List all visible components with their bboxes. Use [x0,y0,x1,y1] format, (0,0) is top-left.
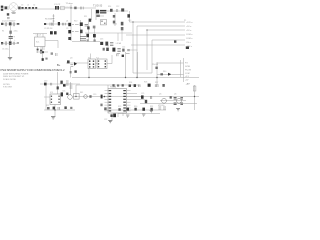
wire bridge drop [10,26,12,41]
wire out cluster drop2 [137,52,139,78]
svg-text:R40: R40 [163,71,166,73]
wire base row [72,41,100,43]
wire aux vertical [91,9,93,20]
standby mark Rz [74,70,76,72]
svg-text:C22: C22 [104,119,107,121]
AC connector J1 [1,6,3,11]
base drive C10 [80,30,83,34]
svg-text:C16: C16 [62,90,65,92]
capacitor C5 [9,36,13,38]
junction dots [54,7,195,110]
below parts D18 [64,106,66,109]
wire mains to transformer [59,7,96,9]
svg-text:C25: C25 [141,93,144,95]
pwm ic U1 TL494 box [108,89,127,114]
U1 top row parts R25 [134,84,136,87]
small part R13 [80,7,83,10]
below parts R16 [117,53,118,56]
terminal circle E1 [84,95,88,99]
diode D26 [87,26,89,29]
wire low bus [140,103,197,105]
wire opto row [73,96,86,98]
U4 pins [51,96,60,103]
bridge out mark [17,23,19,25]
base drive R12 [80,37,86,41]
wire loop v1 [133,22,152,73]
right mid part R36 [160,73,163,75]
wire cap bank row [1,42,19,44]
top cap C13 [127,14,130,17]
cap bank row R3 [13,42,14,45]
U1 right wires [131,94,145,100]
svg-text:R1: R1 [2,30,4,32]
U4 top dark D17 [63,84,66,87]
cap C19 on bus [101,95,103,99]
resistor R6 [53,16,55,21]
svg-text:115/230: 115/230 [65,7,73,9]
driver transformer T2 box [88,59,96,69]
driver left R18 [70,65,73,67]
parts row C21 [162,84,164,87]
neg reg Q6 circle [177,98,182,103]
output wire ext [130,49,138,51]
U1 right pins [123,90,126,112]
wire below IC1 [36,47,48,62]
below parts mark [70,107,72,109]
svg-text:R27: R27 [155,82,158,84]
snubber R14 [110,9,113,12]
bridge diode D3 [9,22,12,25]
switch SW1 box [61,6,65,10]
aux marks2 [113,21,115,24]
transistor Q1 [68,23,71,26]
dot above drive [122,55,124,57]
node dot B [104,96,106,98]
filter choke L3 [32,7,34,9]
svg-text:VR1 B+: VR1 B+ [158,105,165,107]
U4 top chain R21 [70,84,73,88]
svg-text:R31: R31 [150,106,153,108]
ground GND6 [150,111,153,113]
cap bank row mark [17,42,19,44]
svg-text:T2 drive: T2 drive [66,3,74,5]
aux box dots [101,21,105,24]
U4 below parts R23 [58,107,59,110]
U4 below parts R22 [47,107,50,109]
wire drive box feed [66,55,112,64]
right mid diode arrow D19 [168,73,171,76]
line filter L1 circle [9,3,17,11]
U1 pin stubs right [127,91,131,111]
filter cap CY1 [35,7,37,9]
dark pair R26 [148,84,151,87]
resistor R42 [45,58,47,60]
coupling cap C11 [89,19,92,22]
connector P1 labels [186,22,193,48]
svg-text:COM o: COM o [186,38,193,40]
wire IC1 right [45,41,58,49]
bridge diode D1 [1,23,3,25]
wire mid row [85,32,99,34]
bottom row R29 [118,108,120,111]
svg-text:Q5: Q5 [159,94,161,96]
node dot A [40,52,41,53]
svg-text:IC3: IC3 [50,92,53,94]
IC box IC1 [35,37,46,47]
above U1 part Rb [117,84,119,86]
svg-text:IC2: IC2 [96,57,99,59]
neg reg cap C26 [174,97,177,99]
wire right rail [194,85,196,110]
svg-text:R26: R26 [144,82,147,84]
svg-text:B+: B+ [57,63,61,67]
output rect D15 [112,48,115,52]
wire drive verticals [88,22,94,42]
wire aux link [99,31,132,41]
svg-text:COM o: COM o [186,34,193,36]
svg-text:R22: R22 [46,105,49,107]
filter choke L2 [25,7,27,9]
diode D24 [42,58,44,61]
wire connector -5 [152,40,185,73]
X cap C1 [55,6,57,10]
bridge diode D2 [5,22,6,26]
wire right label rail [183,58,185,82]
wire drive down [71,54,91,78]
wire connector +5b [147,29,185,31]
svg-text:C9: C9 [66,28,68,30]
svg-text:C9 R9 D8: C9 R9 D8 [44,28,52,30]
aux diode D21 [121,22,124,26]
U3 pins [98,60,106,67]
svg-text:D25: D25 [100,38,103,40]
svg-text:TL494: TL494 [110,87,117,89]
wire neg reg row [160,100,186,102]
svg-text:F1 5A: F1 5A [11,12,17,15]
left lower resistor R20 [66,81,69,85]
filter cap CX1 [21,7,23,9]
svg-text:R14: R14 [108,6,111,8]
wire ps-on link [157,63,184,75]
resistor R1 [9,31,12,34]
svg-text:R24: R24 [129,82,132,84]
diode D6 [40,50,42,52]
svg-text:COM: COM [185,73,190,75]
capacitor C33 [93,34,96,37]
resistor R44 [87,39,89,41]
aux marks [113,15,115,18]
diode D5 [37,49,39,51]
small ic U4 box [50,94,61,105]
standby resistor R39 [50,83,51,86]
neg reg Q5 circle [162,98,167,103]
svg-text:R29: R29 [118,106,121,108]
marks above drive [117,53,130,55]
svg-text:R IN OHM: R IN OHM [3,87,12,89]
wire out cluster drop1 [125,52,127,78]
capacitor C32 [86,34,89,37]
varistor under filter [12,11,15,14]
output choke L4 [110,42,113,45]
wire cap bank drop [9,45,11,57]
aux box T3 [101,20,107,25]
U1 pin stubs left [105,91,109,111]
svg-text:T2: T2 [88,57,90,59]
output rect D13 [105,42,108,46]
output extra D23 [103,48,105,51]
svg-text:PS-ON: PS-ON [152,64,159,66]
svg-text:+12V o: +12V o [186,22,193,24]
capacitor C31 [54,31,57,34]
below parts C15 [122,55,124,57]
parts row R27 [155,84,158,87]
output rect D14 [106,48,109,51]
wire sec return [96,13,104,20]
clamp D11 [121,8,124,11]
svg-text:C12: C12 [116,6,119,8]
resistor R38 [56,53,57,56]
wire standby row [40,84,80,110]
svg-text:D20: D20 [44,81,47,83]
svg-text:C3: C3 [21,5,23,7]
svg-text:SCALE NONE: SCALE NONE [3,78,17,81]
mid cluster C25 [141,95,144,98]
thermistor NTC1 [18,7,20,10]
resistor R7 [50,23,53,26]
capacitor C30 [50,31,53,34]
connector P1 dark mark [186,46,189,49]
svg-text:C6 220u: C6 220u [2,48,9,50]
cap bank row C7 [9,41,12,44]
wire loop v2 [136,26,138,77]
svg-text:D1-D4 1N4007: D1-D4 1N4007 [2,20,16,22]
filter cap CX2 [28,7,30,9]
opto U5 box [74,94,80,100]
neg reg cap C27 [174,103,177,105]
neg reg R34 [170,96,172,98]
left lower cap C16 [61,92,63,96]
value labels scatter [2,5,176,122]
wire tl494 bottom drops [112,113,123,120]
svg-text:L6: L6 [107,46,109,48]
top-left drop parts2 [7,17,10,18]
transistor Q4 circle [68,95,73,100]
resistor R46 [70,71,72,73]
svg-text:T1 EI-33: T1 EI-33 [93,4,103,7]
resistor R37 [51,52,53,54]
svg-text:PS/2 SP2038 SUPPLY FOR COMMODO: PS/2 SP2038 SUPPLY FOR COMMODORE AT REV1… [1,68,65,72]
svg-text:L5 3A: L5 3A [116,42,122,45]
transistor Q2 [68,30,71,33]
diode D27 on -5 wire [174,40,176,42]
wire right cluster drop [157,60,181,85]
above U1 part Rc [122,84,124,86]
U4 top part C17 [57,86,59,89]
aux diode D22 [121,27,124,30]
ground GND1 [8,57,12,59]
output small R15 [127,49,130,51]
left of U1 part Ck [100,104,102,107]
output rect D12 [100,42,103,45]
resistor R47 on bus [89,95,91,98]
mid cluster R32 [145,100,147,103]
switch ticks t1 [72,25,79,32]
driver left R17 [67,60,70,63]
svg-text:C14: C14 [122,46,125,48]
resistor R43 [93,26,96,29]
svg-text:+5V: +5V [186,84,190,86]
left lower diode D16 [66,93,68,95]
neg reg cap C28 [180,97,183,99]
svg-text:DWG 10-27-96 SHT 1/1: DWG 10-27-96 SHT 1/1 [3,76,25,78]
svg-text:R5 330K: R5 330K [45,19,53,21]
snubber C12 [116,9,117,12]
wire connector com [126,34,185,36]
right mid cluster R35 [155,67,157,69]
transformer T1 core [96,10,107,14]
wire T1 secondary [107,10,128,12]
svg-text:D21: D21 [114,24,117,26]
ground GND5 [142,114,145,116]
wire ic box stubs down [38,47,45,54]
svg-text:+5V o: +5V o [186,30,192,32]
svg-text:+3.3: +3.3 [185,76,189,78]
bottom row R30 [134,108,136,111]
left of U1 part Rj [104,107,106,110]
base drive R11 [85,24,88,26]
wire pwm frame mid [107,85,109,89]
svg-text:R30: R30 [134,106,137,108]
mid cluster R33 [150,96,151,99]
driver ic box U3 [97,59,107,69]
wire small ic col [58,72,71,95]
wire bottom row link [104,110,166,114]
svg-text:C19: C19 [93,94,96,96]
cap bank row R2 [5,41,6,45]
U1 top row parts R24 [129,84,131,87]
svg-text:220u: 220u [14,30,18,32]
svg-text:+5V o: +5V o [186,26,192,28]
output cap C14 [122,49,124,52]
wire switcher rail [80,20,82,41]
driver left Q3 [74,62,77,66]
wire small ic left [44,97,75,116]
svg-text:Q1: Q1 [66,21,68,23]
wire startup row [44,23,70,25]
resistor R8 [62,23,65,26]
svg-text:R10: R10 [74,21,77,23]
svg-text:Q3: Q3 [70,57,72,59]
ground GND2 [51,117,55,119]
right rail part box [193,86,196,91]
bottom row pot VR1 [158,107,166,109]
diode D9 [68,37,71,40]
svg-text:PS-ON: PS-ON [185,69,192,71]
ground GND4 [126,115,129,117]
svg-text:C7 C8: C7 C8 [36,35,41,37]
wire aux right vertical [114,13,116,26]
wire loop v3 [146,30,148,70]
ground GND3 [108,120,112,122]
wire ic box stubs up [33,34,47,38]
base drive R10 [80,22,83,26]
U1 bottom dark C22 [113,114,116,118]
U4 below parts C18 [53,107,55,110]
right net labels [185,63,192,82]
X cap C2 [57,6,59,10]
svg-text:P1: P1 [184,20,186,22]
wire connector -12 [131,44,185,46]
wire pwm frame left [75,85,77,97]
standby diode D20 [44,83,47,86]
wire feedback bus [86,96,199,98]
small part D10 [74,7,76,10]
bottom row C24 [142,108,145,111]
wire startup col [53,14,55,26]
above U1 part Ra [112,84,114,86]
wire AC line top [3,7,55,9]
diode D7 [44,23,46,25]
sec return parts [96,15,99,17]
top-left drop parts [7,13,9,15]
bottom row C23 [126,108,129,111]
T2 winding dots [89,60,94,67]
U1 bottom parts R28 [110,114,112,117]
U1 left pins [109,90,112,112]
wire primary rail vertical [70,5,72,42]
cap bank row C6 [1,42,3,44]
svg-text:5VSB: 5VSB [185,66,191,68]
neg reg cap C29 [180,103,183,105]
svg-text:C4: C4 [33,5,35,7]
wire sense vertical [129,11,131,22]
capacitor C8 [58,22,60,25]
svg-text:R11: R11 [84,16,87,18]
bridge diode D4 [13,22,14,26]
bottom row R31 [150,108,152,111]
svg-text:R41: R41 [80,92,83,94]
dark dot mid [42,51,44,53]
fuse F1 [5,6,8,9]
svg-text:C1 C2: C1 C2 [54,4,61,6]
U1 top row parts C20 [139,84,140,87]
left lower resistor R19 [60,81,62,84]
wire connector +12 [130,21,186,23]
wire bottom bus [72,77,199,79]
ground GND7 [176,109,180,111]
wire pwm frame top [76,84,140,86]
svg-text:L2: L2 [27,5,29,7]
wire connector +5a [137,25,185,27]
svg-text:C13: C13 [128,20,131,22]
svg-text:Q6: Q6 [174,94,176,96]
resistor R45 [93,39,95,41]
wire bridge row [1,23,20,25]
output choke L6 [117,48,120,51]
